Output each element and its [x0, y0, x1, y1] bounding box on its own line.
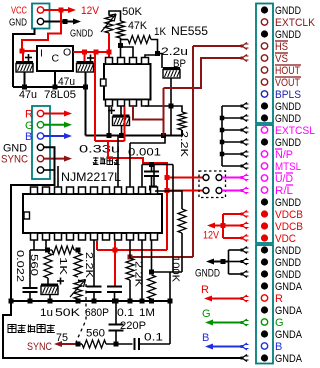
notch NJM2217L: [24, 212, 30, 219]
overline VS: [275, 52, 288, 54]
pin G J2 circle: [37, 122, 43, 128]
resistor R7 2.2K: [126, 241, 134, 304]
arrow gndd: [241, 247, 249, 254]
resistor R1 47K: [117, 21, 125, 38]
label GNDD J3: [275, 269, 301, 281]
label 560 bottom: [86, 328, 105, 340]
svg-text:GNDD: GNDD: [275, 113, 301, 125]
notch NE555: [101, 79, 107, 86]
label 12V: [81, 5, 100, 17]
pin GNDD J3: [261, 138, 268, 145]
wire 5V rail: [73, 50, 112, 55]
svg-text:GND: GND: [9, 17, 27, 29]
wiper dashed: [76, 284, 86, 342]
svg-text:SYNC: SYNC: [1, 154, 28, 166]
label GNDD J3: [275, 101, 301, 113]
wire 12V down to regulator: [22, 10, 61, 51]
label G J2: [25, 120, 34, 132]
arrow HS: [241, 43, 249, 50]
svg-text:1K: 1K: [154, 26, 167, 38]
label R J2: [25, 109, 33, 121]
arrow comb: [241, 151, 249, 158]
pin GNDD J3: [261, 198, 268, 205]
arrow VDC: [241, 235, 249, 242]
wire jumper out2: [222, 190, 242, 192]
jumper pin: [203, 188, 209, 194]
arrow comb: [241, 127, 249, 134]
capacitor C9 680P: [87, 241, 102, 304]
svg-text:VCC: VCC: [11, 5, 27, 17]
svg-text:GNDD: GNDD: [70, 28, 93, 40]
overline VOUT: [275, 76, 301, 78]
svg-text:GND: GND: [3, 142, 27, 154]
svg-text:R: R: [275, 293, 283, 305]
label 50K bottom: [55, 307, 81, 319]
jumper pin: [216, 188, 222, 194]
resistor R6 2.2K: [74, 253, 82, 277]
capacitor C8 1u: [41, 278, 64, 304]
arrow comb: [241, 139, 249, 146]
label EXTCSL J3: [275, 125, 315, 137]
svg-text:50K: 50K: [55, 307, 81, 319]
svg-text:0.33u: 0.33u: [79, 144, 120, 156]
jumper pin: [216, 175, 222, 181]
label B J3: [275, 341, 282, 353]
wire to 2.2u: [158, 54, 163, 69]
resistor R4 560: [44, 253, 52, 278]
label C: [52, 53, 60, 65]
wire 100K top: [155, 191, 182, 209]
svg-text:1M: 1M: [139, 307, 155, 319]
svg-text:G: G: [275, 317, 284, 329]
label HOUT J3: [275, 65, 300, 77]
svg-text:EXTCSL: EXTCSL: [275, 125, 315, 137]
IC U1 NE555: [104, 58, 151, 107]
overline N/P: [275, 148, 282, 150]
label VCC: [11, 5, 27, 17]
pin G J3: [261, 319, 267, 325]
resistor R8 1M: [148, 275, 156, 304]
wire 47K bottom: [118, 38, 123, 58]
pin GNDA J3: [261, 306, 268, 313]
svg-text:GNDD: GNDD: [275, 5, 301, 17]
label SYNC bottom: [27, 341, 52, 353]
svg-text:VS: VS: [275, 53, 288, 65]
potentiometer VR1 50K: [101, 14, 116, 33]
wire pot bottom to 5V: [108, 33, 110, 58]
wire pot top bridge: [109, 11, 121, 21]
capacitor C6 0.001: [144, 162, 159, 191]
svg-text:EXTCLK: EXTCLK: [275, 17, 316, 29]
svg-text:1u: 1u: [40, 307, 53, 319]
pin GNDA J3: [261, 282, 268, 289]
wire red staircase: [108, 141, 167, 250]
connector J2 RGB/SYNC: [32, 106, 50, 179]
overline HS: [275, 40, 288, 42]
label B J2: [25, 131, 32, 143]
label 1K rot: [57, 257, 69, 275]
label 0.001: [128, 147, 161, 159]
pin BPLS J3: [261, 91, 267, 97]
pin U/D J3: [261, 175, 267, 181]
overline HOUT: [275, 64, 301, 66]
svg-text:R: R: [25, 109, 33, 121]
label R J3: [275, 293, 283, 305]
label GNDD bracket: [195, 268, 220, 280]
label VDCB J3: [275, 221, 303, 233]
label U/D J3: [275, 173, 293, 185]
wire pin5 CV: [145, 55, 158, 58]
label O: [63, 47, 71, 59]
label 2.2K r3: [178, 131, 190, 157]
svg-text:MTSL: MTSL: [275, 161, 301, 173]
arrow G mid: [241, 319, 249, 326]
node 1K-right junction: [155, 51, 160, 56]
pin B J2 circle: [37, 133, 43, 139]
wire R mid: [204, 296, 242, 302]
pin R/L J3: [261, 187, 267, 193]
svg-text:220P: 220P: [120, 320, 146, 332]
label GND J2: [3, 142, 27, 154]
arrow comb: [241, 103, 249, 110]
label 220P: [120, 320, 146, 332]
wire pin11 down: [149, 241, 154, 275]
wire gnd rail bottom: [9, 299, 173, 304]
label tantalum kana: [93, 157, 120, 165]
label GNDA J3: [275, 329, 303, 341]
svg-text:BPLS: BPLS: [275, 89, 301, 101]
arrow R/L: [241, 187, 249, 194]
label GNDD J3: [275, 257, 301, 269]
wire GNDA long: [3, 301, 242, 358]
wire red rail y141: [95, 52, 125, 141]
wire HS maroon: [133, 106, 164, 120]
label SYNC J2: [1, 154, 28, 166]
arrow B mid: [241, 343, 249, 350]
svg-text:680P: 680P: [85, 307, 109, 319]
svg-text:0.1: 0.1: [117, 307, 134, 319]
pin B J3: [261, 343, 267, 349]
wire G mid: [205, 320, 242, 326]
wire NE555 pin5 to 2.2u: [145, 105, 171, 107]
pin GNDD J3: [261, 258, 268, 265]
regulator U2 78L05 box: [37, 46, 73, 71]
node 2.2u bottom: [169, 104, 174, 136]
svg-text:B: B: [202, 332, 209, 344]
wire ground rail y87: [13, 85, 86, 90]
svg-text:VDCB: VDCB: [275, 221, 303, 233]
node maroon-rail junction: [161, 133, 166, 138]
arrow VS: [241, 55, 249, 62]
svg-text:VDCB: VDCB: [275, 209, 303, 221]
svg-text:GNDA: GNDA: [275, 353, 303, 365]
capacitor C4 2.2u BP: [163, 68, 180, 106]
svg-text:47u: 47u: [58, 76, 75, 88]
svg-text:O: O: [63, 47, 71, 59]
svg-text:VDC: VDC: [275, 233, 296, 245]
arrow U/D: [241, 174, 249, 181]
arrow VDCB2: [241, 222, 249, 229]
wire GND down-left: [13, 29, 35, 88]
pin SYNC J2 circle: [37, 155, 43, 161]
label 0.33u: [79, 144, 120, 156]
wire R arrow: [44, 111, 72, 117]
arrow comb: [241, 163, 249, 170]
svg-text:2.2u: 2.2u: [161, 46, 188, 58]
capacitor C7 0.022: [23, 241, 47, 304]
svg-text:560: 560: [28, 254, 40, 276]
wire 78L05 common: [54, 71, 56, 87]
wire GNDD comb: [220, 106, 242, 166]
wire VS riser: [163, 88, 165, 136]
label 2.2K r6: [83, 252, 95, 278]
svg-text:GNDD: GNDD: [195, 268, 220, 280]
label G mid: [202, 308, 211, 320]
wire nc pin join: [44, 169, 55, 171]
svg-text:VOUT: VOUT: [275, 77, 300, 89]
svg-text:NE555: NE555: [171, 24, 208, 38]
wire B mid: [205, 344, 242, 350]
label GNDD J3: [275, 29, 301, 41]
pin VDCB J3: [261, 222, 268, 229]
label R/L J3: [275, 185, 293, 197]
svg-text:B: B: [25, 131, 32, 143]
svg-text:N/P: N/P: [275, 149, 293, 161]
wire rail drop to NE555 gnd rail: [85, 87, 87, 136]
label 1u: [40, 307, 53, 319]
label BP: [173, 58, 186, 70]
overline R/L: [286, 184, 293, 186]
wire to 78L05 input: [22, 50, 37, 52]
wire pin22 up: [153, 165, 155, 188]
IC U3 NJM2217L: [23, 187, 162, 240]
node red jumper row2: [165, 188, 170, 193]
label BPLS J3: [275, 89, 301, 101]
pin VS J3: [261, 55, 267, 61]
pin R J3: [261, 295, 267, 301]
svg-text:0.022: 0.022: [14, 250, 26, 282]
wire right drop: [169, 272, 171, 344]
label EXTCLK J3: [275, 17, 316, 29]
label 2.2u: [161, 46, 188, 58]
capacitor C11 0.1: [106, 338, 170, 350]
resistor R2 1K: [121, 36, 158, 54]
pin GNDD J3: [261, 102, 268, 109]
svg-text:GNDD: GNDD: [275, 101, 301, 113]
wire GND J2 route: [11, 147, 55, 301]
resistor R9 100K: [178, 209, 186, 272]
label 0.1 bottom: [144, 332, 163, 344]
label N/P J3: [275, 149, 293, 161]
pin MTSL J3: [261, 163, 267, 169]
label 78L05: [44, 89, 76, 101]
svg-text:GNDD: GNDD: [275, 269, 301, 281]
capacitor C5 0.33u: [108, 106, 130, 138]
svg-text:C: C: [52, 53, 60, 65]
capacitor C1 47u: [16, 51, 33, 87]
label NJM2217L: [61, 170, 121, 184]
svg-text:47K: 47K: [128, 20, 148, 32]
label R mid: [201, 284, 209, 296]
arrow comb: [241, 115, 249, 122]
overline U/D: [275, 172, 293, 174]
arrow gndd: [241, 271, 249, 278]
label 0.022: [14, 250, 26, 282]
svg-text:HOUT: HOUT: [275, 65, 300, 77]
label VDC J3: [275, 233, 296, 245]
wire red to jumper2: [167, 190, 203, 192]
svg-text:GNDD: GNDD: [275, 29, 301, 41]
jumper pin: [203, 175, 209, 181]
wire 12V from VCC pin: [44, 7, 76, 13]
wire GNDD bracket: [206, 250, 242, 274]
node 12V-in junction: [20, 49, 25, 54]
pin VCC circle: [37, 7, 43, 13]
svg-text:50K: 50K: [122, 6, 143, 18]
label GNDA J3: [275, 353, 303, 365]
svg-text:U/D: U/D: [275, 173, 293, 185]
svg-text:100K: 100K: [170, 256, 182, 282]
label 100K: [170, 256, 182, 282]
wire y272 link: [152, 271, 183, 273]
label HS J3: [275, 41, 288, 53]
wire G arrow: [44, 122, 72, 128]
wire SYNC arrow: [44, 156, 72, 162]
svg-text:0.1: 0.1: [144, 332, 163, 344]
svg-text:12V: 12V: [203, 230, 220, 242]
svg-text:560: 560: [86, 328, 105, 340]
pin EXTCLK J3: [261, 19, 267, 25]
svg-text:0.001: 0.001: [128, 147, 161, 159]
pin VOUT J3: [261, 79, 267, 85]
arrow GNDA: [241, 355, 249, 362]
pin EXTCSL J3: [261, 127, 267, 133]
wire 12V bracket: [207, 214, 242, 238]
label 75: [56, 332, 68, 344]
connector J1 (power input): [32, 4, 50, 29]
pin VDC J3: [261, 234, 268, 241]
pin GNDA J3: [261, 354, 268, 361]
pin GNDA J3: [261, 330, 268, 337]
label GNDD J3: [275, 245, 301, 257]
label 680P: [85, 307, 109, 319]
wire VS maroon: [164, 58, 243, 88]
label 0.1 row: [117, 307, 134, 319]
label NE555: [171, 24, 208, 38]
svg-text:GNDA: GNDA: [275, 329, 303, 341]
wire pin10 down: [140, 241, 145, 304]
label VDCB J3: [275, 209, 303, 221]
arrow R mid: [241, 295, 249, 302]
arrow VDCB1: [241, 211, 249, 218]
node 220P junction: [114, 342, 119, 347]
connector J3 box2: [256, 125, 273, 243]
label I: [40, 48, 43, 60]
resistor R10 560: [78, 340, 106, 348]
wire rail tap pin8: [117, 136, 119, 188]
svg-text:B: B: [275, 341, 282, 353]
wire 12V red to pin4: [124, 107, 126, 142]
svg-text:2.2K: 2.2K: [133, 261, 145, 287]
label G J3: [275, 317, 284, 329]
svg-text:HS: HS: [275, 41, 288, 53]
svg-text:GNDD: GNDD: [275, 197, 301, 209]
capacitor C12 0.1: [107, 287, 122, 304]
svg-text:NJM2217L: NJM2217L: [61, 170, 121, 184]
wire red y250: [97, 241, 167, 287]
jumper JP1 box: [199, 171, 226, 198]
wire red to jumper1: [167, 177, 203, 179]
label GNDA J3: [275, 281, 303, 293]
wire pin6 up-right: [121, 47, 134, 58]
pin N/P J3: [261, 151, 267, 157]
svg-text:1K: 1K: [57, 257, 69, 275]
pin nc J2 circle: [37, 167, 43, 173]
svg-text:GNDD: GNDD: [275, 137, 301, 149]
pin GNDD J3: [261, 6, 268, 13]
connector J3 box3: [256, 245, 273, 364]
label 560: [28, 254, 40, 276]
svg-text:I: I: [40, 48, 43, 60]
capacitor C2 47u: [77, 52, 95, 90]
label 1K: [154, 26, 167, 38]
label VOUT J3: [275, 77, 300, 89]
wire jumper out1: [222, 177, 242, 179]
potentiometer VR2 50K: [70, 280, 86, 300]
wire HS to NJM: [128, 255, 194, 260]
svg-text:GNDD: GNDD: [275, 245, 301, 257]
label 47u right: [58, 76, 75, 88]
svg-text:78L05: 78L05: [44, 89, 76, 101]
svg-text:G: G: [25, 120, 34, 132]
wire 0.001 right: [172, 165, 174, 273]
wire pin3 up: [57, 166, 59, 187]
node red jumper row1: [165, 175, 170, 180]
resistor R3 2.2K: [178, 112, 186, 130]
wire HS long: [193, 46, 242, 257]
label GNDD J3: [275, 137, 301, 149]
pin GNDD J3: [261, 114, 268, 121]
svg-text:GNDD: GNDD: [275, 257, 301, 269]
svg-text:G: G: [202, 308, 211, 320]
node sync junction: [76, 342, 81, 347]
pin GNDD J3: [261, 30, 268, 37]
svg-text:SYNC: SYNC: [27, 341, 52, 353]
svg-text:GNDA: GNDA: [275, 281, 303, 293]
wire SYNC maroon: [54, 341, 78, 347]
label 47K: [128, 20, 148, 32]
wire GNDD from GND pin: [44, 19, 81, 25]
wire 0.001 frame top: [130, 136, 165, 144]
resistor R5 1K: [48, 246, 81, 254]
capacitor C10 220P: [109, 301, 124, 344]
pin GNDD J3: [261, 270, 268, 277]
connector J3 box1: [256, 4, 273, 124]
label 12V bracket: [203, 230, 220, 242]
label GND: [9, 17, 27, 29]
wire NE555 gnd pin1: [107, 106, 112, 138]
label VS J3: [275, 53, 288, 65]
svg-text:R: R: [201, 284, 209, 296]
label GNDD J3: [275, 113, 301, 125]
label GNDD J3: [275, 5, 301, 17]
svg-text:R/L: R/L: [275, 185, 293, 197]
pin HOUT J3: [261, 67, 267, 73]
wire 0.001 left: [129, 143, 131, 187]
wire B arrow: [44, 133, 72, 139]
label MTSL J3: [275, 161, 301, 173]
label 47u left: [19, 89, 37, 101]
